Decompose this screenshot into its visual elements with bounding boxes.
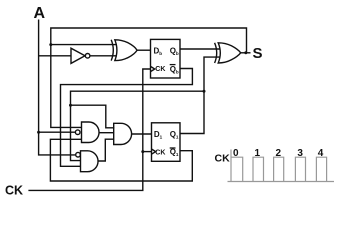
and gate G2 input bubble xyxy=(76,152,81,157)
waveform axis xyxy=(230,150,232,182)
wire A vertical xyxy=(39,20,76,155)
clock waveform xyxy=(228,150,335,182)
svg-text:CK: CK xyxy=(215,153,231,165)
inverter U1 triangle xyxy=(71,48,85,63)
xor gate X2 back arc xyxy=(215,43,217,63)
wire Q1 feedback left xyxy=(71,91,205,160)
svg-text:0: 0 xyxy=(233,148,239,159)
label FF1 Qbar overline xyxy=(170,64,176,66)
wire XOR2 out to S xyxy=(241,52,251,54)
wire A to G1 bubble xyxy=(39,131,76,133)
svg-text:4: 4 xyxy=(318,148,324,159)
and gate G2 body xyxy=(81,151,99,172)
svg-text:Qb: Qb xyxy=(170,47,179,57)
flip-flop U3 clock triangle xyxy=(152,149,156,154)
junction dot node A/G1 xyxy=(37,131,40,134)
svg-text:Q1: Q1 xyxy=(170,147,179,157)
xor gate X2 body xyxy=(218,43,241,63)
wire CK to FF2 xyxy=(143,151,152,153)
wire CK rail xyxy=(28,69,150,190)
waveform pulse 1 xyxy=(253,157,264,181)
wire S feedback to XOR1 xyxy=(51,44,117,46)
junction dot node CK/FF2 xyxy=(141,150,144,153)
svg-text:CK: CK xyxy=(155,149,165,156)
flip-flop U2 clock triangle xyxy=(151,66,155,71)
junction dot node S-fb/XOR1 xyxy=(49,43,52,46)
wire G1 out to G3 xyxy=(99,132,114,134)
junction dot node S xyxy=(244,51,247,54)
wire inverter to XOR1 xyxy=(90,55,117,57)
svg-text:1: 1 xyxy=(255,148,261,159)
flip-flop U2 box xyxy=(151,39,181,78)
junction dot node Q1 branch xyxy=(69,104,72,107)
svg-text:Qb: Qb xyxy=(170,65,179,75)
svg-text:3: 3 xyxy=(297,148,303,159)
wire S feedback top xyxy=(51,28,247,127)
junction dot node Q1 xyxy=(203,90,206,93)
wire A to inverter xyxy=(39,55,71,57)
xor gate X1 back arc xyxy=(111,40,113,61)
and gate G3 body xyxy=(114,123,132,144)
wire Q1 up to XOR2 xyxy=(180,57,221,133)
svg-text:2: 2 xyxy=(276,148,282,159)
wire G2 out to G3 xyxy=(99,139,114,161)
svg-text:Db: Db xyxy=(154,47,163,57)
waveform pulse 4 xyxy=(316,157,326,181)
inverter U1 bubble xyxy=(85,54,90,59)
waveform baseline xyxy=(228,181,335,183)
wire G3 out to FF2 D xyxy=(132,133,152,135)
svg-text:Q1: Q1 xyxy=(170,130,179,140)
waveform pulse 0 xyxy=(231,157,243,181)
wire FF2 Qbar feedback xyxy=(50,139,192,181)
waveform pulse 3 xyxy=(295,157,305,181)
svg-text:S: S xyxy=(253,45,263,62)
wire FF1 Q to XOR2 xyxy=(180,48,221,50)
and gate G1 input bubble xyxy=(75,130,80,135)
flip-flop U3 box xyxy=(152,123,181,162)
svg-text:CK: CK xyxy=(5,184,23,198)
svg-text:D1: D1 xyxy=(154,130,163,140)
label FF2 Qbar overline xyxy=(170,147,176,149)
svg-text:CK: CK xyxy=(155,66,165,73)
xor gate X1 body xyxy=(115,40,137,61)
wire XOR1 to FF1 D xyxy=(137,49,150,51)
and gate G1 body xyxy=(82,122,100,143)
svg-text:A: A xyxy=(34,5,46,22)
waveform pulse 2 xyxy=(274,157,284,181)
wire Q1 branch to G3 xyxy=(71,105,115,128)
wire FF1 Qbar feedback xyxy=(61,69,193,167)
